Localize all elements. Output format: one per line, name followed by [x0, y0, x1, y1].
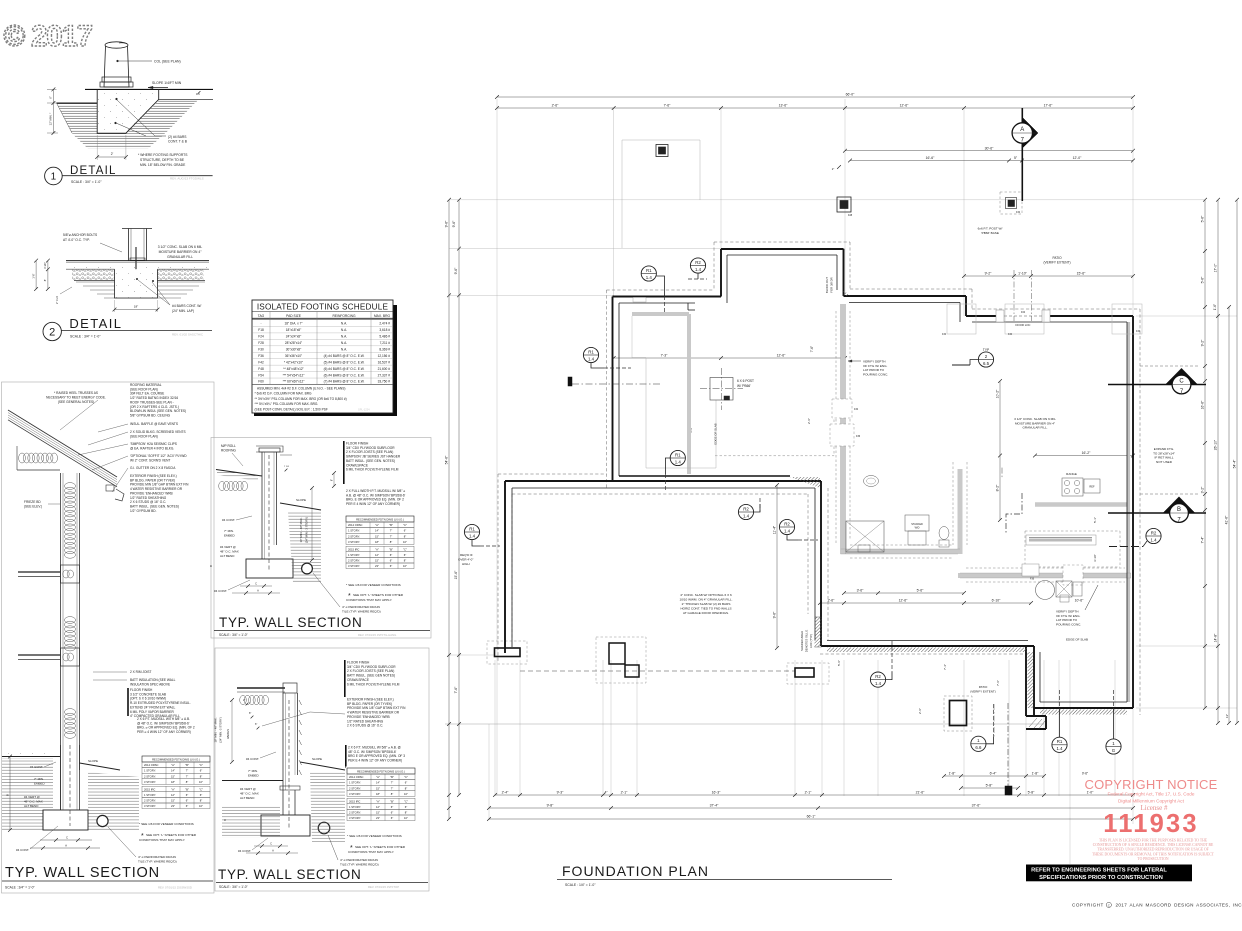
svg-text:MIN. 18" BELOW FIN. GRADE: MIN. 18" BELOW FIN. GRADE: [140, 163, 186, 167]
svg-text:G.I. GUTTER ON 2 X 8 FASCIA: G.I. GUTTER ON 2 X 8 FASCIA: [130, 466, 176, 470]
svg-text:R2: R2: [784, 521, 790, 526]
svg-text:18"x18"x8": 18"x18"x8": [286, 328, 301, 332]
callout R2/1.4 right wall: [1109, 528, 1161, 546]
svg-text:#4 CONT.: #4 CONT.: [238, 849, 251, 853]
svg-text:8'-2": 8'-2": [996, 484, 1000, 492]
svg-text:"B": "B": [389, 547, 393, 551]
svg-text:DENOTES SILL E: DENOTES SILL E: [805, 630, 809, 653]
svg-text:W/D: W/D: [915, 527, 920, 530]
svg-text:48" O.C. MAX: 48" O.C. MAX: [240, 792, 259, 796]
svg-text:"B": "B": [390, 799, 394, 803]
svg-text:GRANULAR FILL: GRANULAR FILL: [167, 255, 193, 259]
svg-text:OVER 4'-0": OVER 4'-0": [458, 558, 473, 562]
detail 1 title: [45, 165, 213, 185]
svg-text:** 48"x48"x12": ** 48"x48"x12": [283, 367, 304, 371]
svg-text:2": 2": [243, 699, 245, 702]
svg-text:"C": "C": [199, 763, 203, 767]
svg-text:12'-0": 12'-0": [1073, 156, 1082, 160]
svg-text:10": 10": [403, 540, 407, 544]
svg-text:1 STORY:: 1 STORY:: [349, 781, 361, 785]
svg-text:REF: REF: [1089, 485, 1095, 489]
svg-text:9'-6": 9'-6": [773, 611, 777, 619]
svg-text:(2) #4 BARS: (2) #4 BARS: [168, 135, 187, 139]
svg-text:4" ⌀ PERFORATED DRAIN: 4" ⌀ PERFORATED DRAIN: [340, 858, 378, 862]
svg-text:M/P ROLL: M/P ROLL: [221, 444, 236, 448]
svg-text:6.5: 6.5: [983, 361, 990, 366]
svg-text:2'-6": 2'-6": [918, 708, 922, 714]
svg-text:2'-6": 2'-6": [552, 104, 560, 108]
laundry dimension rows: [844, 592, 964, 594]
svg-text:TYP. WALL SECTION: TYP. WALL SECTION: [218, 867, 361, 882]
svg-text:12": 12": [171, 793, 175, 797]
svg-text:EMBED: EMBED: [34, 782, 46, 786]
svg-text:10": 10": [403, 564, 407, 568]
svg-text:3 STORY:: 3 STORY:: [348, 540, 360, 544]
svg-text:6": 6": [200, 769, 202, 773]
detail 2 drawing: slab edge anchor bolt: [31, 229, 209, 314]
svg-text:2 STORY:: 2 STORY:: [349, 811, 361, 815]
svg-text:THESE DOCUMENTS OR REMOVAL OF: THESE DOCUMENTS OR REMOVAL OF THIS NOTIF…: [1092, 852, 1215, 856]
svg-text:(24" MIN.-3 STORY): (24" MIN.-3 STORY): [219, 717, 223, 743]
svg-text:SEE OPT. 'L' SHEETS FOR OTHER: SEE OPT. 'L' SHEETS FOR OTHER: [353, 593, 404, 597]
svg-text:66'-1": 66'-1": [807, 815, 816, 819]
svg-text:"A": "A": [171, 787, 175, 791]
sill hatch bands: [790, 290, 1127, 729]
svg-text:RECOMMENDED FDTN DIMS (U.N.O.): RECOMMENDED FDTN DIMS (U.N.O.): [152, 757, 200, 761]
dashed pier boxes garage: [487, 641, 527, 664]
svg-text:3 STORY:: 3 STORY:: [144, 804, 156, 808]
svg-text:18" MIN. - 48" MAX.: 18" MIN. - 48" MAX.: [214, 717, 218, 742]
svg-text:THIS PLAN IS LICENSED FOR THE: THIS PLAN IS LICENSED FOR THE PURPOSES R…: [1099, 839, 1208, 843]
svg-text:"A": "A": [375, 523, 379, 527]
svg-text:7'-4": 7'-4": [1201, 536, 1205, 544]
svg-text:1.4: 1.4: [675, 459, 682, 464]
svg-text:0'-6": 0'-6": [1082, 772, 1088, 776]
middle wall section 2: veneer notes: [328, 834, 406, 867]
svg-text:12'-6": 12'-6": [900, 104, 909, 108]
callout R1/1.4 flex room: [583, 347, 631, 368]
svg-text:CONDITIONS THAT MAY APPLY.: CONDITIONS THAT MAY APPLY.: [348, 850, 394, 854]
svg-text:A: A: [257, 588, 259, 592]
svg-text:2015 IRC: 2015 IRC: [144, 787, 155, 791]
footing pads on interior walls: [830, 399, 1083, 585]
svg-text:(SEE ROOF PLAN): (SEE ROOF PLAN): [130, 434, 158, 438]
svg-text:RANGE: RANGE: [1066, 472, 1077, 476]
svg-text:AT 4'-0" O.C. TYP.: AT 4'-0" O.C. TYP.: [63, 238, 90, 242]
svg-text:16'-6": 16'-6": [926, 156, 935, 160]
section marker C/7: [1108, 368, 1206, 395]
svg-text:"A": "A": [376, 799, 380, 803]
svg-text:2014 ORSC: 2014 ORSC: [349, 775, 364, 779]
svg-text:* SEE 1/6 FOR VENEER CONDITION: * SEE 1/6 FOR VENEER CONDITIONS: [346, 583, 401, 587]
svg-text:10": 10": [404, 816, 408, 820]
svg-text:C: C: [270, 841, 272, 845]
svg-text:5'-6": 5'-6": [917, 589, 925, 593]
svg-text:1: 1: [51, 172, 57, 183]
svg-text:12": 12": [375, 553, 379, 557]
svg-text:4" ⌀ PERFORATED DRAIN: 4" ⌀ PERFORATED DRAIN: [342, 605, 380, 609]
middle wall section 2 title: [216, 867, 428, 889]
svg-text:POURING CONC.: POURING CONC.: [863, 372, 888, 376]
footing pads under top wall posts: [942, 304, 1142, 336]
walkway slab edges: [622, 140, 716, 468]
svg-text:1.4: 1.4: [469, 533, 476, 538]
svg-text:1.4: 1.4: [1150, 537, 1157, 542]
svg-text:#4 CONT.: #4 CONT.: [222, 518, 235, 522]
svg-text:6": 6": [49, 96, 53, 99]
svg-text:3,618 #: 3,618 #: [379, 328, 390, 332]
door location gap detail top wall: [996, 310, 1050, 327]
svg-text:9'-2": 9'-2": [985, 272, 993, 276]
centerline dash-dot marks: [568, 270, 1032, 795]
svg-text:1'-6": 1'-6": [1213, 304, 1217, 310]
svg-text:C: C: [66, 835, 68, 839]
svg-text:C: C: [255, 581, 257, 585]
svg-text:EMBED: EMBED: [224, 534, 236, 538]
bath fixtures: shower with X: [846, 521, 884, 552]
svg-text:MOISTURE BARRIER ON 4": MOISTURE BARRIER ON 4": [159, 250, 203, 254]
svg-text:PER ⌀ 4 W/IN 12" OF ANY CORNER: PER ⌀ 4 W/IN 12" OF ANY CORNER): [137, 730, 191, 734]
svg-text:SLOPE 1/4/FT MIN: SLOPE 1/4/FT MIN: [152, 81, 182, 85]
svg-text:2'-1": 2'-1": [621, 791, 629, 795]
svg-text:F36: F36: [856, 435, 861, 438]
top dimension row 3: 30-6: [845, 150, 1133, 152]
svg-text:"A": "A": [375, 547, 379, 551]
svg-text:@ EA. RAFTER 4 INTO BLKG.: @ EA. RAFTER 4 INTO BLKG.: [130, 446, 174, 450]
svg-text:SHADED AREA: SHADED AREA: [800, 631, 804, 651]
svg-text:10'-2": 10'-2": [996, 389, 1000, 398]
svg-text:13'-6": 13'-6": [779, 104, 788, 108]
svg-text:F34: F34: [1021, 311, 1026, 314]
foundation plan title: [557, 863, 892, 887]
svg-text:8": 8": [391, 792, 393, 796]
svg-text:1 STORY:: 1 STORY:: [348, 553, 360, 557]
svg-text:3 STORY:: 3 STORY:: [349, 816, 361, 820]
svg-text:5'-8": 5'-8": [1028, 791, 1036, 795]
svg-text:7'-3": 7'-3": [661, 354, 669, 358]
svg-text:6": 6": [186, 793, 188, 797]
svg-text:54'-6": 54'-6": [445, 455, 449, 464]
svg-text:111933: 111933: [1103, 810, 1198, 838]
svg-text:#4 BARS CONT. W/: #4 BARS CONT. W/: [172, 304, 201, 308]
svg-text:3 1/2" CONC. SLAB ON 6 MIL: 3 1/2" CONC. SLAB ON 6 MIL: [158, 245, 203, 249]
svg-text:18": 18": [376, 792, 380, 796]
svg-text:REINFORCING: REINFORCING: [332, 314, 356, 318]
svg-text:41'-6": 41'-6": [1225, 515, 1229, 524]
svg-text:6": 6": [186, 799, 188, 803]
svg-text:21,600 #: 21,600 #: [378, 367, 391, 371]
garage door dashed line: [520, 670, 795, 672]
svg-text:2" CLR: 2" CLR: [56, 296, 59, 304]
svg-text:16'-6": 16'-6": [1201, 400, 1205, 409]
svg-text:#4 CONT.: #4 CONT.: [246, 757, 259, 761]
svg-text:(VERIFY EXTENT): (VERIFY EXTENT): [1043, 261, 1070, 265]
svg-text:16'-3": 16'-3": [712, 791, 721, 795]
svg-text:PER E 4 W/IN 12" OF ANY CORNER: PER E 4 W/IN 12" OF ANY CORNER): [348, 759, 402, 763]
svg-text:7'-6": 7'-6": [810, 346, 814, 352]
svg-text:6.6: 6.6: [975, 745, 982, 750]
svg-text:26'-10": 26'-10": [1214, 439, 1218, 450]
svg-text:#4 CONT.: #4 CONT.: [30, 765, 43, 769]
callout 1/6.6 patio: [971, 704, 994, 751]
svg-text:6": 6": [200, 793, 202, 797]
plan text annotations: [679, 227, 1174, 694]
svg-text:7": 7": [391, 786, 393, 790]
svg-text:"C": "C": [404, 775, 408, 779]
garage door piers: [495, 643, 815, 677]
svg-text:SPL-1234: SPL-1234: [358, 407, 370, 411]
svg-text:NOT USED: NOT USED: [1156, 460, 1173, 464]
svg-text:15'-6": 15'-6": [454, 570, 458, 579]
foundation plan extension line grid: [445, 99, 1237, 864]
svg-text:2: 2: [49, 327, 55, 339]
svg-text:R1: R1: [646, 268, 652, 273]
svg-text:TILE (TYP. WHERE REQ'D): TILE (TYP. WHERE REQ'D): [342, 610, 381, 614]
svg-text:7": 7": [186, 769, 188, 773]
svg-text:*** 54"x54"x12": *** 54"x54"x12": [283, 373, 305, 377]
right dimension lines: [1204, 200, 1206, 708]
svg-text:SCALE : 3/4" = 1'-0": SCALE : 3/4" = 1'-0": [219, 885, 248, 889]
svg-text:6'-10": 6'-10": [992, 599, 1001, 603]
svg-text:18": 18": [134, 305, 138, 309]
svg-text:F34: F34: [1008, 333, 1013, 336]
svg-text:2 X RIM JOIST: 2 X RIM JOIST: [130, 670, 151, 674]
svg-text:2'-4": 2'-4": [502, 791, 510, 795]
svg-text:18" DIA. x 7": 18" DIA. x 7": [284, 322, 302, 326]
svg-text:10'-6": 10'-6": [1075, 598, 1084, 602]
svg-text:9'-2": 9'-2": [1201, 339, 1205, 347]
left wall section: veneer notes: [108, 822, 197, 864]
svg-text:REV. 07/01/15 JSTFTG-HANG: REV. 07/01/15 JSTFTG-HANG: [358, 633, 396, 637]
svg-text:7": 7": [186, 774, 188, 778]
left wall section: wall studs and insulation: [61, 473, 80, 820]
svg-text:15": 15": [171, 774, 175, 778]
svg-text:(VERIFY EXTENT): (VERIFY EXTENT): [970, 690, 995, 694]
svg-text:8": 8": [186, 780, 188, 784]
svg-text:N.A.: N.A.: [341, 347, 347, 351]
garage interior vertical dim: [776, 485, 778, 648]
svg-text:"A": "A": [171, 763, 175, 767]
svg-text:12" MIN. *: 12" MIN. *: [49, 112, 53, 126]
svg-text:1.4: 1.4: [695, 267, 702, 272]
section marker A/7: [1012, 108, 1038, 201]
section marker B/7: [1108, 497, 1206, 524]
svg-text:8,369 #: 8,369 #: [379, 347, 390, 351]
svg-text:8": 8": [404, 534, 406, 538]
svg-text:ISOLATED FOOTING SCHEDULE: ISOLATED FOOTING SCHEDULE: [257, 303, 389, 312]
svg-text:7": 7": [391, 781, 393, 785]
svg-text:R2: R2: [1151, 530, 1157, 535]
left wall section: floor finish note: [128, 688, 191, 718]
svg-text:REV. 07/01/15 JSTFTOP: REV. 07/01/15 JSTFTOP: [368, 885, 399, 889]
svg-text:"C": "C": [403, 547, 407, 551]
svg-text:1.4: 1.4: [646, 275, 653, 280]
svg-text:B: B: [5, 794, 9, 796]
svg-text:66'-0": 66'-0": [846, 93, 855, 97]
svg-text:AT GARAGE DOOR OPENINGS.: AT GARAGE DOOR OPENINGS.: [683, 611, 729, 615]
svg-text:2,474 #: 2,474 #: [379, 322, 390, 326]
svg-text:DOOR LOC: DOOR LOC: [1016, 323, 1031, 327]
svg-text:HORIZ CONT. TIED TO FND WALLS: HORIZ CONT. TIED TO FND WALLS: [680, 607, 731, 611]
svg-text:GRANULAR FILL.: GRANULAR FILL.: [1022, 426, 1047, 430]
svg-text:"C": "C": [404, 799, 408, 803]
svg-text:17'-6": 17'-6": [1044, 104, 1053, 108]
svg-text:SCALE : 3/4" = 1'-0": SCALE : 3/4" = 1'-0": [70, 334, 101, 338]
left wall section title: [2, 865, 213, 890]
svg-text:3 1/2": 3 1/2": [44, 262, 47, 269]
svg-text:SCALE : 3/4" = 1'-0": SCALE : 3/4" = 1'-0": [219, 633, 248, 637]
svg-text:14": 14": [375, 529, 379, 533]
bottom copyright line: [1072, 902, 1242, 907]
svg-text:4" ⌀ PERFORATED DRAIN: 4" ⌀ PERFORATED DRAIN: [138, 855, 176, 859]
svg-text:8": 8": [390, 540, 392, 544]
svg-text:TO PROSECUTION: TO PROSECUTION: [1137, 857, 1169, 861]
svg-text:9'-3": 9'-3": [557, 791, 565, 795]
svg-text:A: A: [65, 843, 67, 847]
svg-text:B: B: [209, 565, 213, 567]
main foundation wall heavy outline: [505, 249, 1133, 729]
svg-text:12,156 #: 12,156 #: [378, 354, 391, 358]
svg-text:4" CONC. SLAB W/ OPTIONAL 6 X: 4" CONC. SLAB W/ OPTIONAL 6 X 6: [680, 593, 732, 597]
svg-text:24"x24"x8": 24"x24"x8": [286, 335, 301, 339]
svg-text:BATT INSULATION (SEE WALL: BATT INSULATION (SEE WALL: [130, 678, 176, 682]
range and fridge: [1062, 472, 1100, 496]
bottom dimension row A: [944, 775, 1044, 777]
svg-text:1 STORY:: 1 STORY:: [349, 805, 361, 809]
svg-text:POURING CONC.: POURING CONC.: [1056, 622, 1081, 626]
svg-text:MAX. BRG: MAX. BRG: [374, 314, 391, 318]
svg-text:2014 ORSC: 2014 ORSC: [348, 523, 363, 527]
svg-text:N.A.: N.A.: [341, 341, 347, 345]
patio post footing bottom: [944, 696, 972, 731]
svg-text:#4 CONT.: #4 CONT.: [214, 589, 227, 593]
svg-text:REFER TO ENGINEERING SHEETS FO: REFER TO ENGINEERING SHEETS FOR LATERAL: [1031, 868, 1167, 874]
svg-text:1 STORY:: 1 STORY:: [144, 769, 156, 773]
svg-text:PATIO: PATIO: [979, 685, 988, 689]
svg-text:8": 8": [404, 559, 406, 563]
svg-text:F30: F30: [258, 347, 264, 351]
svg-text:23": 23": [375, 564, 379, 568]
svg-text:1.4: 1.4: [588, 356, 595, 361]
svg-text:(24" MIN.- 3 STORY): (24" MIN.- 3 STORY): [305, 517, 309, 543]
svg-text:2017 ALAN MASCORD DESIGN A: 2017 ALAN MASCORD DESIGN ASSOCIATES, INC…: [1116, 903, 1242, 908]
svg-text:-: -: [260, 322, 261, 326]
svg-text:PATIO: PATIO: [1052, 256, 1062, 260]
svg-text:LOC (TYP): LOC (TYP): [809, 634, 813, 648]
svg-text:6": 6": [186, 804, 188, 808]
svg-text:36"x36"x10": 36"x36"x10": [285, 354, 302, 358]
svg-text:"B": "B": [185, 763, 189, 767]
left wall section: footing annotations: [5, 755, 100, 852]
svg-text:7": 7": [390, 534, 392, 538]
svg-text:8": 8": [405, 786, 407, 790]
svg-text:* SEE 1/6 FOR VENEER CONDITION: * SEE 1/6 FOR VENEER CONDITIONS: [347, 834, 402, 838]
svg-text:1.4: 1.4: [743, 513, 750, 518]
svg-text:© 2017: © 2017: [4, 20, 93, 53]
svg-text:14": 14": [376, 781, 380, 785]
bottom dimension row B: [961, 787, 1018, 789]
middle wall section 2 box: [215, 648, 429, 891]
svg-text:W/ 'PB66': W/ 'PB66': [737, 384, 751, 388]
callout R1/1.4 entry left: [641, 266, 664, 313]
svg-text:2 X 6 STUDS @ 16" O.C.: 2 X 6 STUDS @ 16" O.C.: [347, 724, 383, 728]
svg-text:"C": "C": [199, 787, 203, 791]
svg-text:3'-2": 3'-2": [1201, 486, 1205, 494]
svg-text:STRUCTURE, DEPTH TO BE: STRUCTURE, DEPTH TO BE: [140, 158, 185, 162]
svg-text:2 STORY:: 2 STORY:: [144, 774, 156, 778]
svg-text:REV. 01/02 SASCTHIC: REV. 01/02 SASCTHIC: [172, 333, 204, 337]
svg-text:1.4: 1.4: [1056, 746, 1063, 751]
svg-text:5'-6": 5'-6": [1201, 215, 1205, 223]
6x6 post in flex room: [700, 368, 754, 410]
svg-text:15": 15": [171, 799, 175, 803]
svg-text:REV. AUG/13 FTGDWLS: REV. AUG/13 FTGDWLS: [170, 176, 204, 180]
svg-text:27,337 #: 27,337 #: [378, 373, 391, 377]
svg-text:1 STORY:: 1 STORY:: [144, 793, 156, 797]
bottom dimension row D: [489, 807, 1133, 809]
svg-text:2" THICKEN SLAB W/ (2) #4 BARS: 2" THICKEN SLAB W/ (2) #4 BARS: [682, 602, 731, 606]
svg-text:13": 13": [1225, 714, 1229, 718]
svg-text:6": 6": [404, 553, 406, 557]
svg-text:6": 6": [390, 553, 392, 557]
post square near patio left: [837, 197, 853, 217]
svg-text:W/ 2" CONT. SCRN'D VENT: W/ 2" CONT. SCRN'D VENT: [130, 458, 170, 462]
svg-text:TILE (TYP. WHERE REQ'D): TILE (TYP. WHERE REQ'D): [138, 860, 177, 864]
svg-text:CONT. T & B: CONT. T & B: [168, 140, 188, 144]
svg-text:15": 15": [376, 811, 380, 815]
svg-text:23": 23": [171, 804, 175, 808]
svg-text:10/10 WWM. ON 4" GRANULAR FILL: 10/10 WWM. ON 4" GRANULAR FILL.: [679, 598, 732, 602]
svg-text:R1: R1: [588, 349, 594, 354]
svg-text:* 42"x42"x10": * 42"x42"x10": [284, 360, 303, 364]
svg-text:8": 8": [200, 799, 202, 803]
svg-text:PAD SIZE: PAD SIZE: [286, 314, 302, 318]
svg-text:(6) #4 BARS @ 8" O.C. E.W.: (6) #4 BARS @ 8" O.C. E.W.: [324, 367, 365, 371]
svg-text:12": 12": [376, 805, 380, 809]
svg-text:SPECIFICATIONS PRIOR TO CONSTR: SPECIFICATIONS PRIOR TO CONSTRUCTION: [1039, 875, 1163, 881]
left wall section: roof assembly: [8, 410, 124, 501]
left wall section: recommended fdtn dims table: [141, 755, 212, 812]
svg-text:10": 10": [404, 792, 408, 796]
svg-text:3 STORY:: 3 STORY:: [144, 780, 156, 784]
svg-text:SCALE : 3/4" = 1'-0": SCALE : 3/4" = 1'-0": [71, 180, 102, 184]
svg-text:1'-6": 1'-6": [31, 273, 35, 278]
svg-text:"B": "B": [389, 523, 393, 527]
svg-text:1'-8": 1'-8": [1032, 772, 1040, 776]
svg-text:FOR 3/8 DR: FOR 3/8 DR: [830, 277, 834, 292]
svg-text:* 6x6 #2 D.F. COLUMN FOR MAX.: * 6x6 #2 D.F. COLUMN FOR MAX. BRG: [255, 392, 313, 396]
svg-text:18": 18": [171, 780, 175, 784]
svg-text:TILE (TYP. WHERE REQ'D): TILE (TYP. WHERE REQ'D): [340, 863, 379, 867]
interior wall footing dashes: [715, 311, 1125, 582]
svg-text:SLOPE: SLOPE: [312, 757, 322, 761]
svg-text:** 3½"x3½" PSL COLUMN FOR MAX.: ** 3½"x3½" PSL COLUMN FOR MAX. BRG (OR 6…: [255, 397, 347, 401]
svg-text:R2: R2: [875, 674, 881, 679]
svg-text:2014 ORSC: 2014 ORSC: [144, 763, 159, 767]
svg-text:SEE OPT. 'L' SHEETS FOR OTHER: SEE OPT. 'L' SHEETS FOR OTHER: [146, 833, 197, 837]
left wall section: mid floor band: [18, 648, 80, 666]
svg-text:TAG: TAG: [258, 314, 265, 318]
left wall section box: [2, 382, 215, 893]
svg-text:R1: R1: [675, 452, 681, 457]
svg-text:F34: F34: [854, 408, 859, 411]
svg-text:2015 IRC: 2015 IRC: [348, 547, 359, 551]
svg-text:ALT BEND: ALT BEND: [240, 796, 255, 800]
svg-text:(SEE POST-CONN. DETAIL): (SEE POST-CONN. DETAIL) SOIL B.P. : 1,50…: [255, 407, 328, 411]
svg-text:VARIES: VARIES: [226, 729, 230, 739]
svg-text:10": 10": [199, 804, 203, 808]
svg-text:14'-8": 14'-8": [1214, 633, 1218, 642]
